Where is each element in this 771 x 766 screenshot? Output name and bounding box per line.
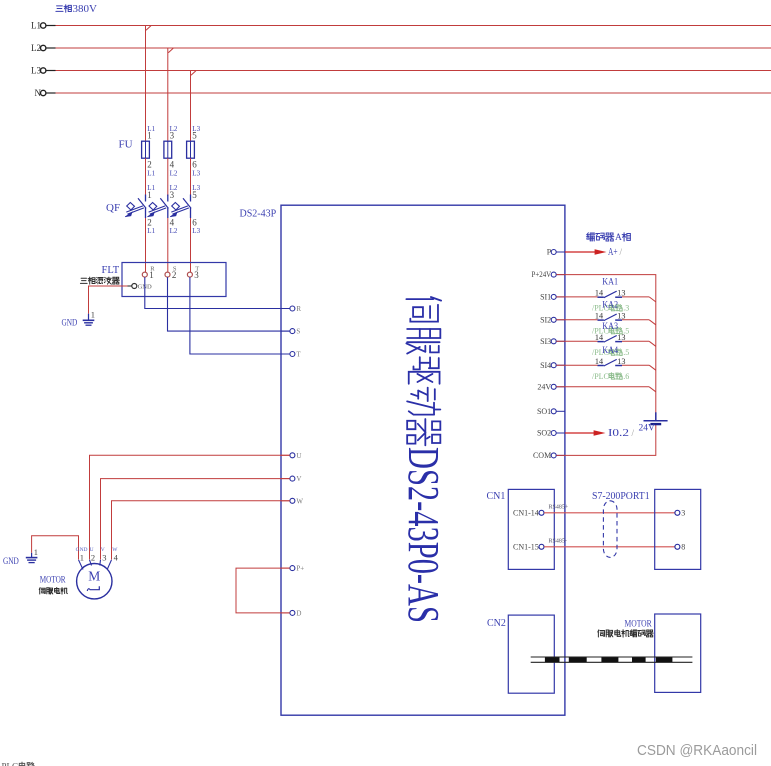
wire FLT output 2 to driver <box>168 277 290 331</box>
relay contact KA4 (14-13) on SI4 <box>556 346 656 370</box>
label: 编码器A相 <box>587 233 630 243</box>
svg-text:3: 3 <box>170 190 175 200</box>
label: /PLC circuit note 3 <box>592 304 629 313</box>
driver pin T (left) <box>281 351 301 359</box>
pin CN1-14 and RS485 wire to PORT1 pin 3 <box>513 505 685 518</box>
connector CN2 box <box>487 615 554 693</box>
svg-text:5: 5 <box>192 131 197 141</box>
svg-text:13: 13 <box>617 312 625 321</box>
FLT ground terminal GND <box>128 284 152 291</box>
svg-text:A: A <box>615 233 622 243</box>
svg-text:1: 1 <box>34 547 38 557</box>
svg-text:CN2: CN2 <box>487 618 506 629</box>
driver pin P+ (left) <box>281 565 304 573</box>
driver pin U (left) <box>281 452 301 460</box>
svg-text:R: R <box>150 265 155 272</box>
wire driver U to motor terminal 2 <box>90 455 290 559</box>
driver pin SI4 (right) <box>540 361 565 370</box>
node N supply terminal and rail wire <box>35 88 771 98</box>
svg-text:.5: .5 <box>623 348 629 357</box>
wire SO2 to I0.2 arrow <box>565 428 635 439</box>
svg-text:13: 13 <box>617 357 625 366</box>
driver pin P+24V (right) <box>532 270 565 279</box>
wire encoder A+ arrow from pin P <box>565 247 623 258</box>
svg-text:P+: P+ <box>296 565 304 573</box>
svg-text:13: 13 <box>617 289 625 298</box>
driver pin D (left) <box>281 609 301 617</box>
svg-text:A+: A+ <box>608 247 618 258</box>
svg-text:SO2: SO2 <box>537 429 551 438</box>
svg-text:S: S <box>296 328 300 336</box>
svg-text:U: U <box>296 452 301 460</box>
svg-text:L3: L3 <box>192 227 200 235</box>
svg-text:FLT: FLT <box>102 265 120 276</box>
svg-text:L1: L1 <box>147 170 155 178</box>
svg-text:14: 14 <box>595 289 603 298</box>
label: 三相380V supply title <box>56 3 97 15</box>
wire P+ to D loop <box>236 568 290 613</box>
label: MOTOR 伺服电机 <box>39 576 67 595</box>
encoder box MOTOR 伺服电机编码器 <box>598 614 701 692</box>
label FU <box>119 139 133 151</box>
svg-text:D: D <box>296 609 301 617</box>
FLT terminal 3 (T) <box>187 265 199 280</box>
svg-text:3: 3 <box>170 131 175 141</box>
svg-text:R: R <box>296 305 301 313</box>
cable shield dashed ellipse <box>603 501 617 558</box>
driver pin SI2 (right) <box>540 315 565 324</box>
svg-text:SI3: SI3 <box>540 337 551 346</box>
svg-text:14: 14 <box>595 357 603 366</box>
wire FLT GND to earth <box>89 286 128 320</box>
driver pin S (left) <box>281 328 300 336</box>
svg-text:KA3: KA3 <box>602 322 618 332</box>
pin CN1-15 and RS485 wire to PORT1 pin 8 <box>513 539 685 552</box>
driver pin SI3 (right) <box>540 337 565 346</box>
svg-text:4: 4 <box>170 218 175 228</box>
node L1 supply terminal and rail wire <box>31 21 771 31</box>
svg-text:PLC: PLC <box>2 761 19 766</box>
wire feeder tap from rail L3 <box>191 71 196 142</box>
driver pin R (left) <box>281 305 301 313</box>
servo driver U1 box DS2-43P <box>240 205 565 715</box>
svg-text:SI2: SI2 <box>540 315 551 324</box>
svg-text:V: V <box>296 475 301 483</box>
svg-text:L2: L2 <box>170 170 178 178</box>
label: /PLC circuit note 5 <box>592 348 629 357</box>
svg-text:SI4: SI4 <box>540 361 551 370</box>
circuit breaker QF pole 2 <box>147 184 177 272</box>
svg-text:2: 2 <box>91 552 95 562</box>
wire P+24V to 24V bus <box>556 275 656 421</box>
motor M1 (servo motor) <box>77 564 112 599</box>
circuit breaker QF pole 3 <box>170 184 200 272</box>
driver pin SO1 (right) <box>537 407 565 416</box>
svg-text:KA4: KA4 <box>602 346 618 356</box>
svg-text:L3: L3 <box>192 170 200 178</box>
svg-text:L1: L1 <box>147 227 155 235</box>
svg-text:MOTOR: MOTOR <box>625 619 653 629</box>
svg-text:MOTOR: MOTOR <box>40 576 66 586</box>
wire motor GND terminal to earth <box>32 536 79 560</box>
FLT terminal 1 (R) <box>142 265 155 280</box>
svg-text:I0.2: I0.2 <box>608 428 629 439</box>
svg-text:8: 8 <box>681 543 685 552</box>
label QF <box>106 202 120 214</box>
svg-text:CSDN @RKAaoncil: CSDN @RKAaoncil <box>637 743 757 759</box>
svg-text:/: / <box>620 247 623 257</box>
svg-text:M: M <box>88 569 100 584</box>
svg-text:1: 1 <box>80 552 84 562</box>
svg-text:QF: QF <box>106 202 120 214</box>
fuse FU pole 1 <box>142 125 156 196</box>
driver pin SI1 (right) <box>540 293 565 302</box>
svg-text:1: 1 <box>91 309 95 319</box>
svg-text:14: 14 <box>595 333 603 342</box>
svg-text:4: 4 <box>170 160 175 170</box>
svg-text:6: 6 <box>192 218 197 228</box>
wire FLT output 1 to driver <box>145 277 290 308</box>
svg-text:3: 3 <box>681 509 685 518</box>
svg-text:L2: L2 <box>31 43 41 53</box>
svg-text:6: 6 <box>192 160 197 170</box>
driver pin V (left) <box>281 475 301 483</box>
label: CSDN watermark <box>637 743 757 759</box>
svg-text:1: 1 <box>147 131 152 141</box>
battery 24V <box>639 412 668 433</box>
svg-text:CN1-14: CN1-14 <box>513 508 539 517</box>
driver pin COM (right) <box>533 451 565 460</box>
svg-text:2: 2 <box>147 218 152 228</box>
svg-text:W: W <box>296 497 303 505</box>
label: /PLC circuit note 6 <box>592 372 629 381</box>
svg-text:SO1: SO1 <box>537 407 551 416</box>
relay contact KA1 (14-13) on SI1 <box>556 278 656 302</box>
svg-text:KA2: KA2 <box>602 301 618 311</box>
driver pin SO2 (right) <box>537 429 565 438</box>
svg-text:S7-200PORT1: S7-200PORT1 <box>592 491 650 502</box>
relay contact KA2 (14-13) on SI2 <box>556 301 656 325</box>
node L2 supply terminal and rail wire <box>31 43 771 53</box>
svg-text:.6: .6 <box>623 372 629 381</box>
svg-text:KA1: KA1 <box>602 278 618 288</box>
svg-text:COM: COM <box>533 451 551 460</box>
ground symbol (filter earth) <box>62 309 95 328</box>
svg-text:/PLC: /PLC <box>592 372 609 381</box>
node L3 supply terminal and rail wire <box>31 66 771 76</box>
shielded encoder cable <box>531 657 693 662</box>
svg-text:P+24V: P+24V <box>532 270 552 279</box>
svg-text:24V: 24V <box>639 423 656 433</box>
wire feeder tap from rail L1 <box>146 26 151 142</box>
svg-text:RS485+: RS485+ <box>549 505 569 511</box>
svg-text:14: 14 <box>595 312 603 321</box>
filter FLT box <box>102 263 227 297</box>
wire feeder tap from rail L2 <box>168 48 173 141</box>
svg-text:3: 3 <box>102 552 106 562</box>
svg-text:DS2-43P: DS2-43P <box>240 209 277 220</box>
svg-text:/: / <box>632 428 635 438</box>
svg-text:L1: L1 <box>31 21 41 31</box>
fuse FU pole 2 <box>164 125 178 196</box>
svg-text:L2: L2 <box>170 227 178 235</box>
svg-text:24V: 24V <box>537 382 551 391</box>
svg-text:DS2-43P0-AS: DS2-43P0-AS <box>399 447 448 623</box>
wire 24V pin to bus <box>556 387 656 392</box>
svg-text:5: 5 <box>192 190 197 200</box>
svg-text:CN1: CN1 <box>487 491 506 502</box>
label: PLC circuit (clipped) <box>2 761 35 766</box>
label: 伺服驱动器DS2-43P0-AS vertical title <box>399 297 448 623</box>
label: /PLC circuit note 5 <box>592 326 629 335</box>
driver pin 24V (right) <box>537 382 564 391</box>
connector CN1 box <box>487 489 555 569</box>
svg-text:13: 13 <box>617 333 625 342</box>
wire driver W to motor terminal 4 <box>112 501 290 560</box>
ground symbol (motor earth) <box>3 547 38 567</box>
circuit breaker QF pole 1 <box>125 184 155 272</box>
svg-text:4: 4 <box>114 552 119 562</box>
svg-text:FU: FU <box>119 139 133 151</box>
driver pin W (left) <box>281 497 303 505</box>
svg-text:SI1: SI1 <box>540 293 551 302</box>
svg-text:380V: 380V <box>73 3 98 15</box>
svg-text:GND: GND <box>3 557 19 567</box>
relay contact KA3 (14-13) on SI3 <box>556 322 656 346</box>
svg-text:CN1-15: CN1-15 <box>513 542 539 551</box>
svg-text:2: 2 <box>147 160 152 170</box>
svg-text:T: T <box>195 265 199 272</box>
svg-text:1: 1 <box>147 190 152 200</box>
motor terminal stubs and labels <box>76 547 119 570</box>
svg-text:GND: GND <box>62 319 78 329</box>
svg-text:RS485-: RS485- <box>549 539 567 545</box>
label: 三相滤波器 <box>80 277 119 284</box>
wire bus below battery to COM <box>556 425 656 456</box>
svg-text:T: T <box>296 351 301 359</box>
svg-text:S: S <box>173 265 177 272</box>
fuse FU pole 3 <box>187 125 201 196</box>
wire driver V to motor terminal 3 <box>101 479 290 560</box>
driver pin P (right) <box>547 248 565 257</box>
wire FLT output 3 to driver <box>190 277 290 354</box>
FLT terminal 2 (S) <box>165 265 177 280</box>
PLC box S7-200PORT1 <box>592 489 701 569</box>
